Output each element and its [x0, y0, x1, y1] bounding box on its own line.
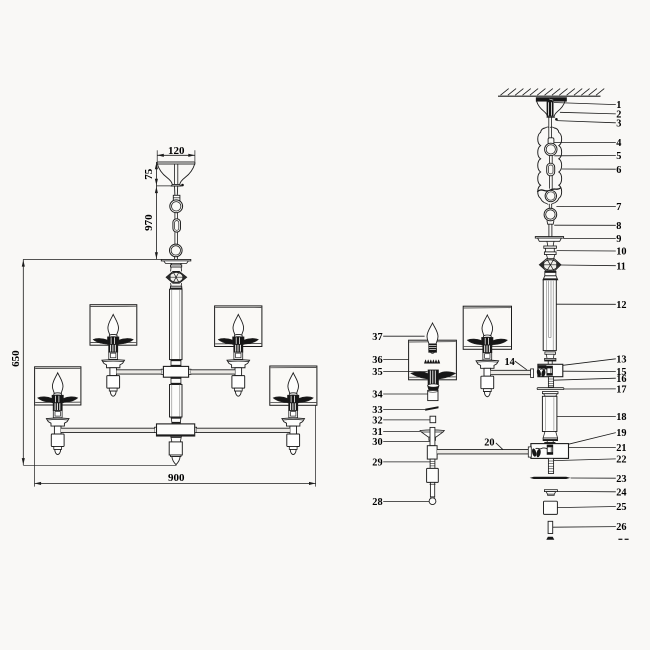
svg-text:6: 6 — [616, 165, 621, 176]
svg-text:19: 19 — [616, 428, 626, 439]
dimension 650 bottom extension — [23, 464, 176, 466]
neck below plate — [547, 241, 554, 246]
chain fabric sleeve (wavy cover) — [538, 128, 546, 202]
exploded shade (part 36) — [409, 340, 457, 380]
svg-text:20: 20 — [484, 437, 494, 448]
leader 23 — [571, 477, 616, 479]
break squiggle — [537, 188, 561, 192]
ceiling canopy (exploded) — [536, 98, 566, 102]
finial cylinder — [169, 442, 182, 455]
dimension 650 top extension — [23, 258, 161, 260]
screw dot (part 3) — [555, 118, 558, 121]
leader 16 — [554, 378, 616, 380]
ceiling line with hatching — [498, 95, 601, 97]
exploded candle bulb (part 37) — [427, 323, 438, 344]
svg-text:30: 30 — [372, 437, 382, 448]
leader 8 — [554, 224, 616, 226]
butterfly wing screw (part 21) — [531, 448, 537, 457]
svg-text:24: 24 — [616, 487, 626, 498]
chain connector 2 — [174, 232, 176, 244]
unnumbered dashes below 26 — [618, 538, 622, 540]
leader 26 — [553, 526, 616, 529]
upper hub collar — [171, 360, 181, 367]
collar above lower hub — [171, 417, 181, 424]
chain stem — [175, 186, 178, 195]
svg-text:650: 650 — [10, 350, 22, 367]
stem to plate — [548, 224, 550, 236]
stem below sleeve — [548, 204, 550, 210]
small cup (part 24) — [544, 490, 557, 492]
diamond ornament — [166, 272, 186, 284]
collar above tube — [542, 392, 558, 394]
svg-text:11: 11 — [616, 261, 626, 272]
leader 24 — [558, 490, 616, 492]
collar below tube — [543, 432, 558, 439]
leader 3 — [557, 121, 616, 123]
leader 31 — [383, 431, 420, 433]
spool collar below column — [545, 352, 556, 354]
bobeche dish (part 31) — [420, 430, 444, 437]
neck to hub — [547, 361, 549, 364]
canopy interior tube — [173, 164, 175, 184]
finial acorn tip — [172, 457, 180, 465]
upper-right lamp — [215, 306, 262, 347]
svg-text:21: 21 — [616, 443, 626, 454]
stem through bobeche (part 30) — [430, 427, 435, 445]
stem to top plate — [174, 257, 176, 260]
svg-text:25: 25 — [616, 502, 626, 513]
svg-text:37: 37 — [372, 332, 382, 343]
hanging ring (part 8) — [544, 208, 557, 221]
neck below diamond — [171, 283, 182, 286]
long washer rod (part 23) — [530, 477, 571, 479]
dimension 120 (canopy width) — [156, 150, 158, 161]
svg-text:17: 17 — [616, 385, 626, 396]
end cap — [546, 537, 554, 540]
neck below plate — [171, 263, 181, 265]
canopy bell — [157, 164, 194, 184]
extension line under canopy — [156, 185, 182, 187]
svg-text:75: 75 — [143, 168, 155, 180]
dimension 75 (canopy height) — [155, 162, 157, 186]
socket threads inside shade — [424, 360, 440, 364]
hub screw cartridge — [538, 365, 546, 368]
finial taper — [171, 436, 182, 442]
chain ring lower (partial) — [545, 190, 556, 201]
socket box of exploded arm — [427, 468, 439, 482]
stem below box — [430, 482, 434, 497]
leader 35 — [383, 371, 427, 373]
svg-text:10: 10 — [616, 247, 626, 258]
small nipple (part 32) — [430, 416, 436, 423]
svg-text:28: 28 — [372, 497, 382, 508]
canopy side screw dot — [181, 184, 184, 187]
leader 29 — [383, 461, 430, 463]
washer (part 17) — [537, 388, 564, 390]
svg-text:120: 120 — [168, 145, 185, 157]
leader 12 — [556, 303, 615, 305]
leader 32 — [383, 419, 430, 421]
torch cup — [428, 386, 439, 391]
upper hub block (part 13) — [538, 364, 563, 376]
top plate disc — [161, 259, 191, 261]
svg-text:23: 23 — [616, 474, 626, 485]
butterfly wing screw (part 15) — [536, 369, 542, 377]
svg-text:22: 22 — [616, 455, 626, 466]
svg-text:13: 13 — [616, 354, 626, 365]
svg-text:29: 29 — [372, 458, 382, 469]
canopy top plate — [157, 162, 195, 164]
svg-text:8: 8 — [616, 221, 621, 232]
dimension 970 (chain length) — [155, 186, 157, 260]
leader 10 — [557, 250, 616, 252]
leader 25 — [558, 507, 616, 508]
leader 19 — [569, 433, 616, 445]
svg-text:26: 26 — [616, 522, 626, 533]
lower tier hub — [155, 427, 157, 432]
candle tube (part 34) — [428, 390, 438, 400]
svg-text:32: 32 — [372, 416, 382, 427]
leader 6 — [562, 168, 616, 170]
threaded connector (part 10) — [544, 246, 557, 248]
chain links — [549, 156, 551, 164]
mounting box (part 25) — [544, 501, 558, 514]
suspension stem below canopy — [548, 117, 550, 138]
svg-text:12: 12 — [616, 300, 626, 311]
leader 2 — [560, 112, 616, 114]
svg-text:14: 14 — [504, 357, 514, 368]
top plate disc (part 9) — [535, 237, 563, 239]
arm junction block — [427, 446, 437, 459]
svg-text:36: 36 — [372, 355, 382, 366]
leader 36 — [383, 359, 408, 361]
canopy bottom collar — [171, 185, 181, 187]
svg-text:33: 33 — [372, 405, 382, 416]
end ball (part 28) — [431, 497, 434, 499]
middle column section — [170, 385, 183, 418]
leader 22 — [554, 459, 616, 461]
canopy strap and screw — [547, 101, 553, 116]
threaded stem (part 29) — [430, 459, 435, 468]
collar below diamond — [545, 271, 556, 276]
column rod (part 12) — [543, 280, 556, 351]
threaded stem below lower hub (part 22) — [548, 458, 553, 473]
leader 13 — [563, 359, 616, 366]
svg-text:5: 5 — [616, 151, 621, 162]
chain ring inside sleeve (part 5) — [545, 143, 557, 155]
svg-text:900: 900 — [168, 472, 185, 484]
chain ring 2 — [170, 244, 183, 257]
candle sleeve with wings (part 35) — [411, 372, 428, 379]
upper tier arms — [117, 370, 162, 374]
svg-text:16: 16 — [616, 374, 626, 385]
svg-text:7: 7 — [616, 202, 621, 213]
tube section (part 18) — [542, 396, 557, 431]
leader 28 — [383, 500, 429, 502]
svg-text:9: 9 — [616, 234, 621, 245]
collar below upper hub — [171, 377, 181, 384]
chain square link (part 4) — [548, 138, 554, 144]
leader 18 — [557, 416, 616, 418]
leader 11 — [561, 264, 616, 267]
lower-left lamp — [35, 367, 81, 405]
leader 17 — [564, 388, 616, 390]
svg-text:3: 3 — [616, 118, 621, 129]
chain top collar — [173, 195, 180, 201]
leader 4 — [554, 141, 616, 143]
neck above diamond — [546, 255, 555, 259]
tilted washer (part 33) — [425, 406, 438, 411]
svg-text:970: 970 — [143, 214, 155, 231]
leader 9 — [564, 238, 616, 240]
leader 7 — [556, 205, 615, 207]
leader 33 — [383, 408, 425, 410]
svg-text:4: 4 — [616, 138, 621, 149]
lower tier arms — [61, 428, 155, 432]
leader 30 — [383, 441, 430, 443]
svg-text:35: 35 — [372, 367, 382, 378]
threaded nipple (part 26) — [548, 521, 553, 533]
hub screw cartridge lower — [547, 445, 553, 454]
chain ring 1 — [170, 200, 183, 213]
leader 34 — [383, 393, 428, 395]
upper tier hub — [161, 369, 163, 374]
leader 5 — [554, 155, 616, 157]
long arm (part 20) — [437, 450, 528, 454]
upper-left lamp — [90, 305, 137, 346]
flare skirt — [543, 276, 558, 280]
chain connector — [174, 213, 176, 220]
threaded stem below hub (part 16) — [548, 377, 553, 387]
diamond ornament (part 11) — [539, 259, 561, 272]
lower hub block (part 19) — [531, 444, 569, 459]
svg-text:34: 34 — [372, 390, 382, 401]
leader 1 — [554, 103, 616, 105]
lower-right lamp — [270, 366, 317, 405]
leader 21 — [569, 446, 616, 448]
upper column section — [170, 289, 183, 359]
leader 37 — [383, 335, 424, 337]
leader 15 — [563, 370, 616, 372]
mid lamp assembly with arm (part 14) — [463, 306, 511, 349]
arm 14 — [491, 370, 531, 374]
svg-text:18: 18 — [616, 412, 626, 423]
chain oval link — [173, 219, 181, 232]
dimension 900 (width) — [34, 405, 36, 487]
dimension 650 (height) — [22, 259, 24, 465]
